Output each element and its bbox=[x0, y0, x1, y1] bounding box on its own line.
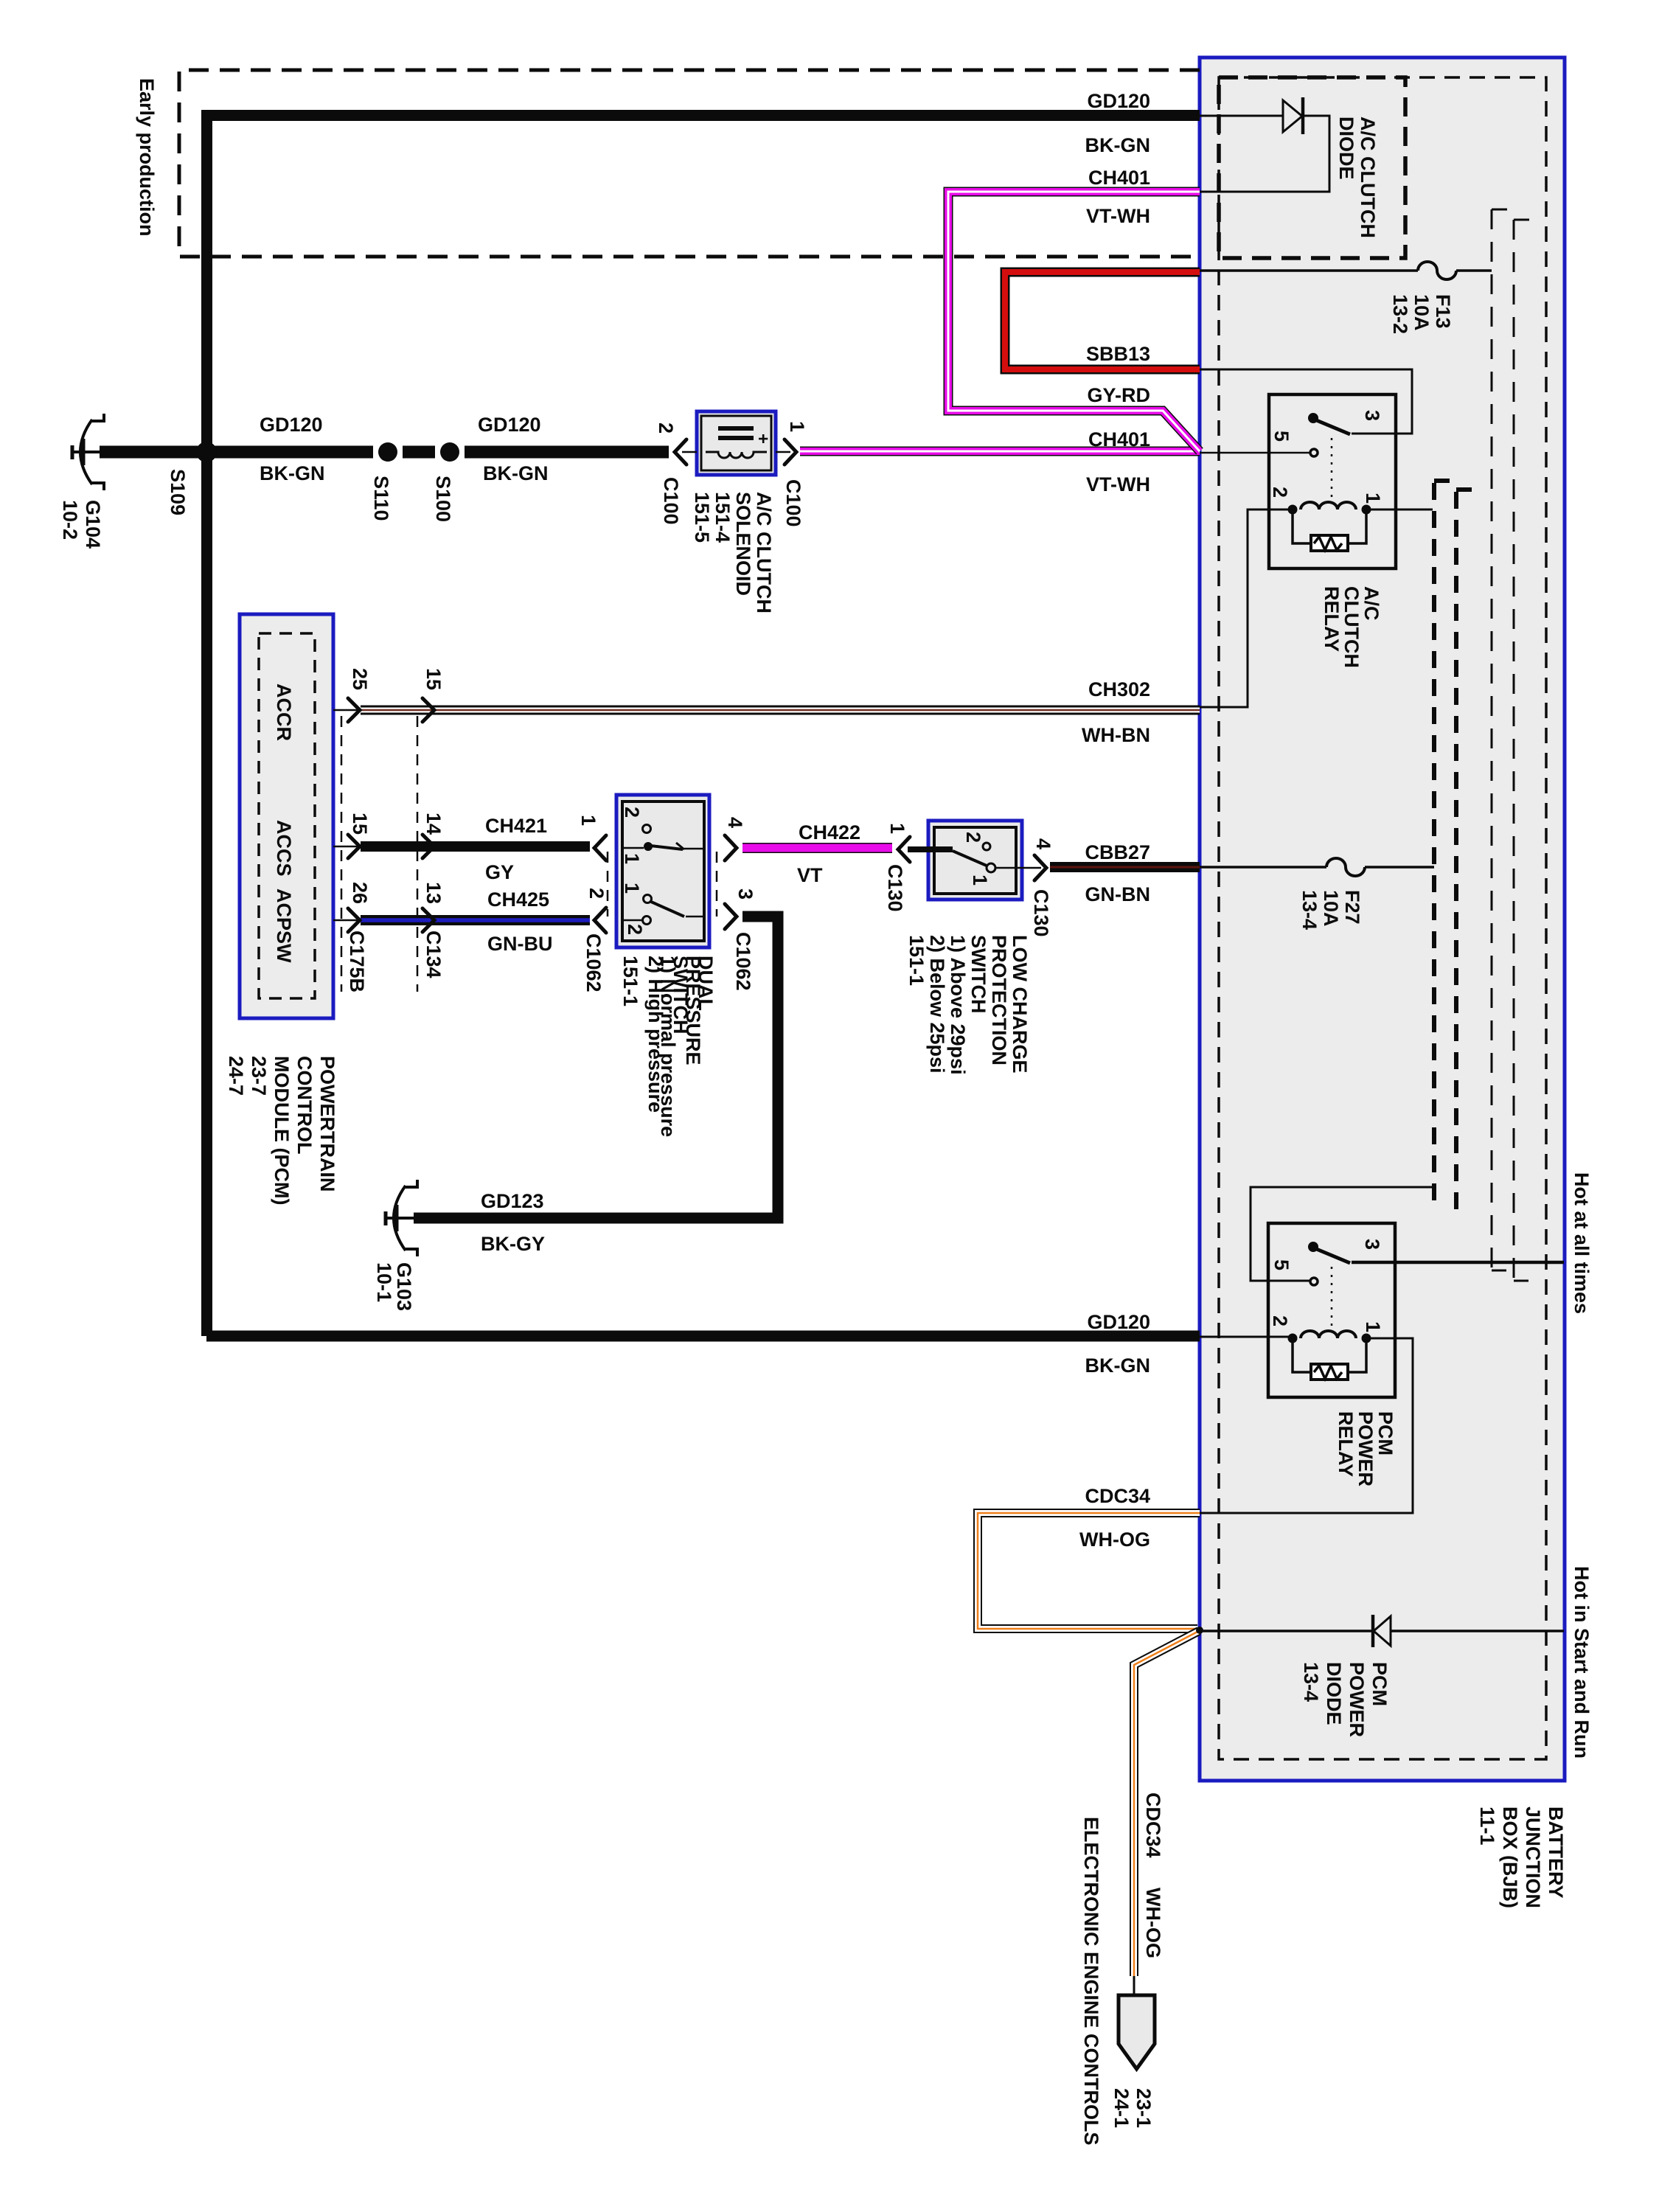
connector C134 dashed line bbox=[417, 716, 419, 992]
wire GD120 ground row bbox=[100, 446, 669, 459]
connector arrow C130 pin 4 bbox=[1034, 855, 1046, 880]
svg-text:15: 15 bbox=[422, 668, 445, 690]
early production dashed box bbox=[179, 70, 1200, 257]
svg-text:23-124-1: 23-124-1 bbox=[1110, 2088, 1155, 2128]
fuse F13 bbox=[1200, 262, 1492, 279]
svg-text:5: 5 bbox=[1270, 431, 1293, 442]
svg-text:C100: C100 bbox=[660, 477, 682, 525]
svg-text:BK-GN: BK-GN bbox=[260, 462, 325, 484]
svg-text:2: 2 bbox=[585, 888, 608, 899]
svg-text:3: 3 bbox=[734, 888, 757, 900]
svg-text:CH401: CH401 bbox=[1088, 428, 1150, 451]
ground G104 bbox=[72, 414, 104, 490]
battery junction box BJB outline bbox=[1200, 58, 1565, 1781]
svg-text:1: 1 bbox=[621, 853, 643, 864]
svg-text:BK-GN: BK-GN bbox=[1085, 134, 1151, 156]
svg-text:GN-BU: GN-BU bbox=[487, 933, 553, 955]
svg-text:1: 1 bbox=[969, 874, 991, 886]
svg-text:BK-GN: BK-GN bbox=[1085, 1354, 1151, 1377]
wire CH401 VT-WH lower segment bbox=[800, 447, 1200, 456]
PCM pin stub ACCR bbox=[333, 709, 359, 712]
svg-text:1: 1 bbox=[1362, 493, 1384, 504]
svg-text:VT-WH: VT-WH bbox=[1086, 205, 1150, 227]
svg-text:CDC34: CDC34 bbox=[1142, 1792, 1164, 1858]
wire PCM relay pin3 hot at all times bbox=[1352, 1261, 1564, 1265]
svg-text:C134: C134 bbox=[422, 931, 445, 978]
svg-text:C130: C130 bbox=[884, 864, 906, 912]
dual pressure switch internals bottom bbox=[622, 895, 704, 925]
PCM power diode bbox=[1200, 1615, 1564, 1647]
connector arrow C134 pin 14 bbox=[422, 835, 434, 858]
splice S109 bbox=[196, 442, 217, 462]
svg-text:14: 14 bbox=[422, 813, 445, 835]
wire C1062 pin3 to GD123 to ground bbox=[414, 917, 778, 1218]
low charge protection switch C130 box bbox=[928, 821, 1022, 900]
svg-text:Early production: Early production bbox=[136, 78, 158, 237]
bus dashed line heavy 1 bbox=[1432, 483, 1436, 1208]
connector C1062 dashed line right bbox=[716, 852, 718, 917]
wire GD120 vertical trunk bbox=[201, 110, 212, 1336]
connector arrow C1062 pin 3 bbox=[725, 904, 737, 929]
svg-text:2: 2 bbox=[962, 832, 984, 843]
PCM pin stub ACPSW bbox=[333, 919, 359, 922]
connector arrow C1062 pin 1 bbox=[594, 835, 606, 860]
EEC connector pentagon bbox=[1119, 1995, 1155, 2069]
svg-text:ACPSW: ACPSW bbox=[273, 888, 295, 963]
svg-text:GY: GY bbox=[485, 861, 514, 883]
diode A/C clutch bbox=[1200, 97, 1329, 192]
wire CBB27 GN-BN bbox=[1050, 862, 1200, 872]
svg-text:1: 1 bbox=[886, 823, 908, 834]
svg-text:BK-GY: BK-GY bbox=[481, 1233, 545, 1255]
svg-text:ELECTRONIC ENGINE CONTROLS: ELECTRONIC ENGINE CONTROLS bbox=[1080, 1817, 1102, 2146]
wire A/C relay pin1 to bus bbox=[1370, 509, 1433, 511]
svg-text:GN-BN: GN-BN bbox=[1085, 883, 1151, 905]
bus dashed line thin 1 bbox=[1491, 209, 1493, 1270]
wire CH401 VT-WH loop segment bbox=[948, 192, 1200, 451]
svg-text:2: 2 bbox=[655, 422, 677, 434]
svg-text:VT: VT bbox=[797, 864, 823, 886]
wire CH421 GY bbox=[361, 841, 590, 852]
svg-text:3: 3 bbox=[1361, 410, 1383, 421]
svg-text:WH-OG: WH-OG bbox=[1079, 1528, 1150, 1551]
svg-text:5: 5 bbox=[1270, 1259, 1293, 1270]
wire CH425 GN-BU bbox=[361, 915, 590, 925]
dual pressure switch internals top bbox=[622, 825, 704, 850]
A/C clutch relay bbox=[1200, 394, 1396, 568]
dual pressure switch box bbox=[616, 795, 709, 947]
BJB inner dashed boundary bbox=[1219, 77, 1546, 1759]
svg-text:1: 1 bbox=[577, 815, 599, 826]
svg-text:C175B: C175B bbox=[346, 931, 368, 992]
svg-text:C1062: C1062 bbox=[582, 933, 605, 992]
connector C1062 dashed line left bbox=[607, 852, 609, 917]
connector arrow C134 pin 15 bbox=[422, 698, 434, 722]
svg-text:Hot at all times: Hot at all times bbox=[1571, 1172, 1593, 1314]
svg-text:4: 4 bbox=[724, 817, 746, 828]
PCM pin stub ACCS bbox=[333, 846, 359, 848]
wire CDC34 WH-OG drop to EEC bbox=[1134, 1631, 1199, 1976]
svg-text:F2710A13-4: F2710A13-4 bbox=[1298, 890, 1363, 930]
svg-text:GD120: GD120 bbox=[1087, 90, 1150, 112]
wire CDC34 WH-OG loop bbox=[978, 1513, 1200, 1629]
connector arrow C130 pin 1 bbox=[898, 837, 910, 862]
svg-text:ACCR: ACCR bbox=[273, 684, 295, 741]
svg-text:CH425: CH425 bbox=[487, 888, 549, 911]
svg-text:3: 3 bbox=[1361, 1239, 1383, 1250]
svg-text:GD120: GD120 bbox=[260, 414, 323, 436]
svg-text:CH401: CH401 bbox=[1088, 167, 1150, 189]
node CDC34 at BJB edge bbox=[1196, 1627, 1203, 1634]
svg-text:1: 1 bbox=[1362, 1321, 1384, 1332]
svg-text:S109: S109 bbox=[167, 469, 189, 515]
bus dashed line heavy 2 bbox=[1454, 492, 1458, 1215]
svg-text:13: 13 bbox=[422, 882, 445, 904]
svg-text:C130: C130 bbox=[1030, 889, 1052, 937]
svg-text:CBB27: CBB27 bbox=[1085, 841, 1150, 863]
wire GD120 bottom row bbox=[206, 1331, 1200, 1342]
svg-text:+: + bbox=[753, 434, 773, 444]
connector arrow C134 pin 13 bbox=[422, 908, 434, 932]
splice S100 bbox=[435, 445, 465, 459]
svg-text:C1062: C1062 bbox=[732, 932, 754, 991]
wire PCM relay pin1 to CDC34 bbox=[1200, 1338, 1413, 1513]
wire GD120 stub inside BJB bbox=[1200, 1336, 1289, 1338]
svg-text:25: 25 bbox=[349, 668, 371, 690]
C130 internals bbox=[908, 846, 953, 852]
connector arrow C175B pin 25 bbox=[348, 698, 360, 722]
A/C clutch diode dashed box bbox=[1219, 77, 1405, 258]
svg-text:1: 1 bbox=[786, 421, 808, 432]
svg-text:SBB13: SBB13 bbox=[1086, 343, 1150, 365]
connector arrow C1062 pin 4 bbox=[725, 835, 737, 860]
svg-text:WH-BN: WH-BN bbox=[1082, 724, 1150, 746]
svg-text:2: 2 bbox=[621, 807, 643, 818]
svg-text:2: 2 bbox=[1269, 487, 1291, 498]
svg-text:2: 2 bbox=[624, 924, 646, 935]
connector arrow C175B pin 26 bbox=[348, 908, 360, 932]
svg-text:CDC34: CDC34 bbox=[1085, 1485, 1150, 1507]
svg-text:Hot in Start and Run: Hot in Start and Run bbox=[1571, 1566, 1593, 1759]
wire SBB13 inside to relay pin 3 bbox=[1200, 369, 1412, 434]
svg-text:2: 2 bbox=[1269, 1315, 1291, 1326]
svg-text:GY-RD: GY-RD bbox=[1087, 384, 1150, 406]
svg-text:S100: S100 bbox=[432, 476, 454, 522]
svg-text:WH-OG: WH-OG bbox=[1142, 1888, 1164, 1958]
svg-text:GD120: GD120 bbox=[478, 414, 541, 436]
connector arrow C175B pin 15 bbox=[348, 835, 360, 858]
svg-text:GD120: GD120 bbox=[1087, 1311, 1150, 1333]
connector arrow C100 pin 2 bbox=[675, 439, 686, 465]
svg-text:CH421: CH421 bbox=[485, 815, 547, 837]
bus dashed line thin 2 bbox=[1513, 220, 1515, 1281]
svg-text:BK-GN: BK-GN bbox=[483, 462, 549, 484]
svg-text:CH302: CH302 bbox=[1088, 678, 1150, 700]
A/C clutch solenoid C100 box bbox=[697, 411, 776, 475]
PCM connector box bbox=[240, 614, 333, 1018]
wire GD120 top horizontal bbox=[201, 110, 1200, 121]
wire to EEC connector bbox=[1133, 1976, 1135, 1995]
wire CH302 WH-BN bbox=[361, 706, 1200, 715]
connector C175B dashed line bbox=[341, 716, 343, 992]
wire A/C relay pin2 to CH302 bbox=[1200, 509, 1289, 707]
svg-text:15: 15 bbox=[349, 813, 371, 835]
svg-text:S110: S110 bbox=[370, 476, 392, 521]
svg-text:F1310A13-2: F1310A13-2 bbox=[1389, 294, 1454, 334]
svg-text:CH422: CH422 bbox=[799, 821, 860, 844]
ground G103 bbox=[386, 1180, 417, 1256]
PCM power relay bbox=[1268, 1223, 1395, 1397]
svg-text:GD123: GD123 bbox=[481, 1190, 544, 1212]
svg-text:VT-WH: VT-WH bbox=[1086, 473, 1150, 495]
svg-text:C100: C100 bbox=[782, 479, 804, 527]
connector arrow C100 pin 1 bbox=[785, 439, 796, 465]
wire PCM relay pin5 to bus bbox=[1251, 1187, 1433, 1281]
connector arrow C1062 pin 2 bbox=[594, 908, 606, 933]
svg-text:4: 4 bbox=[1032, 838, 1054, 849]
svg-text:ACCS: ACCS bbox=[273, 820, 295, 877]
horizontal wire name labels bbox=[1079, 90, 1150, 1551]
svg-text:1: 1 bbox=[621, 883, 643, 894]
wire CH422 VT bbox=[742, 843, 892, 853]
fuse F27 bbox=[1200, 858, 1434, 876]
splice S110 bbox=[373, 445, 403, 459]
wire SBB13 GY-RD loop bbox=[1005, 272, 1200, 369]
svg-text:26: 26 bbox=[349, 882, 371, 904]
